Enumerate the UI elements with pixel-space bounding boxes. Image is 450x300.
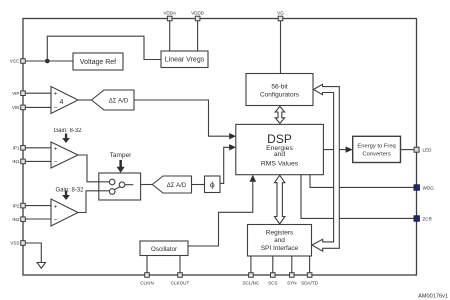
svg-text:Gain: 8-32: Gain: 8-32 (55, 187, 84, 193)
svg-text:Configurators: Configurators (260, 91, 300, 98)
svg-text:VDDD: VDDD (191, 10, 205, 15)
op-amp U1 gain 4 (51, 87, 78, 114)
wire DSP to energy-to-freq (323, 149, 347, 151)
wire VIP input (25, 92, 51, 94)
svg-text:VIN: VIN (12, 105, 20, 110)
svg-text:Voltage Ref: Voltage Ref (80, 59, 116, 66)
svg-text:and: and (274, 151, 286, 158)
wire VCC to Voltage Ref (25, 60, 73, 62)
svg-text:+: + (54, 204, 58, 211)
linear voltage regulators box (161, 51, 208, 68)
voltage reference box (73, 53, 123, 70)
registers and SPI interface box U6 (248, 225, 312, 257)
svg-text:VIP: VIP (12, 91, 19, 96)
arrow into DSP (voltage channel) (229, 133, 236, 139)
pin SDA/TD (307, 273, 312, 278)
wire oscillator to CLKIN pin (146, 256, 148, 273)
energy to frequency converters box (353, 136, 401, 162)
wire amp U2 output to tamper switch (78, 155, 99, 182)
wire VDDA down (169, 21, 171, 51)
arrow into DSP (current channel) (229, 144, 236, 150)
sigma-delta ADC1 (92, 90, 135, 110)
gain arrow U2 (65, 134, 67, 139)
pin ZCR (414, 216, 419, 221)
pin LED (414, 147, 419, 152)
op-amp U3 gain 8-32 (51, 199, 78, 226)
wire VCC junction to Linear Vregs (47, 36, 161, 61)
wire IP2 input (25, 205, 51, 207)
svg-text:VDDA: VDDA (163, 10, 177, 15)
svg-text:−: − (54, 105, 58, 112)
svg-text:CLKIN: CLKIN (140, 281, 154, 286)
svg-text:Gain: 8-32: Gain: 8-32 (53, 128, 82, 134)
svg-text:IP1: IP1 (13, 146, 20, 151)
wire oscillator clock to DSP (188, 180, 253, 246)
svg-text:VG: VG (277, 10, 284, 15)
svg-text:Tamper: Tamper (110, 152, 133, 159)
wire DSP to ZCR pin (301, 175, 414, 219)
wire IN2 input (25, 218, 51, 220)
wire SPI to SYN pin (291, 256, 293, 273)
svg-text:+: + (54, 91, 58, 98)
wire IP1 input (25, 147, 51, 149)
svg-text:4: 4 (60, 99, 64, 106)
pin VDDD (195, 16, 200, 21)
svg-text:Registers: Registers (266, 229, 294, 236)
svg-text:SCS: SCS (268, 281, 277, 286)
arrow into DSP (clock) (250, 175, 257, 182)
phase block phi (205, 176, 221, 193)
pin IP2 (21, 203, 26, 208)
pin IP1 (21, 146, 26, 151)
pin SCS (271, 273, 276, 278)
gain arrow U3 (65, 191, 67, 196)
tamper switch box (99, 173, 141, 200)
wire amp U3 output to tamper switch (78, 191, 99, 213)
svg-text:IN1: IN1 (12, 159, 20, 164)
double arrow configurators-DSP (275, 106, 284, 123)
svg-text:AM00176v1: AM00176v1 (418, 294, 448, 300)
pin CLKIN (145, 273, 150, 278)
svg-text:Oscillator: Oscillator (151, 246, 177, 253)
svg-text:IN2: IN2 (12, 217, 20, 222)
wire SPI to SCL/NC pin (250, 256, 252, 273)
pin VIP (21, 91, 26, 96)
svg-text:and: and (274, 237, 285, 244)
svg-text:ϕ: ϕ (210, 179, 215, 189)
svg-text:CLKOUT: CLKOUT (171, 281, 190, 286)
oscillator box (140, 241, 188, 256)
wire oscillator to CLKOUT pin (179, 256, 181, 273)
svg-text:VSS: VSS (10, 241, 19, 246)
wire amp U1 output to ADC1 (78, 99, 92, 101)
svg-text:SYN: SYN (287, 281, 296, 286)
svg-text:RMS Values: RMS Values (261, 160, 299, 167)
tamper arrow (119, 160, 122, 167)
node VCC junction (45, 59, 50, 64)
wire VDDD down (197, 21, 199, 51)
svg-text:LED: LED (423, 148, 433, 153)
svg-text:Converters: Converters (362, 152, 390, 158)
wire phi block to DSP (220, 147, 231, 183)
pin VCC (21, 16, 420, 277)
pin WDG (414, 185, 419, 190)
ground (37, 263, 45, 269)
svg-text:SPI Interface: SPI Interface (261, 245, 299, 252)
svg-text:IP2: IP2 (13, 203, 20, 208)
op-amp U2 gain 8-32 (51, 142, 78, 168)
svg-text:ΔΣ A/D: ΔΣ A/D (167, 183, 187, 189)
svg-text:Energy to Freq: Energy to Freq (357, 144, 395, 150)
svg-text:SDA/TD: SDA/TD (301, 281, 319, 286)
svg-text:−: − (54, 216, 58, 223)
svg-text:ZCR: ZCR (423, 216, 433, 221)
pin VDDA (167, 16, 172, 21)
svg-text:VCC: VCC (10, 59, 20, 64)
wire tamper switch to ADC2 (141, 184, 153, 186)
pin CLKOUT (178, 273, 183, 278)
pin SCL/NC (249, 273, 254, 278)
wire VIN input (25, 106, 51, 108)
pin IN2 (21, 217, 26, 222)
wire VSS to ground (25, 243, 41, 263)
svg-text:−: − (54, 159, 58, 166)
pin VG (278, 16, 283, 21)
sigma-delta ADC2 (152, 176, 191, 193)
wire ADC2 to phi block (192, 184, 205, 186)
svg-text:Linear Vregs: Linear Vregs (165, 57, 205, 64)
svg-text:WDG: WDG (423, 185, 435, 190)
wire energy-to-freq to LED pin (401, 149, 415, 151)
pin VSS (21, 241, 26, 246)
wire VG down (280, 21, 282, 74)
bus arrow 56-bit configurators to registers (hollow) (312, 84, 339, 251)
svg-text:+: + (54, 145, 58, 152)
pin IN1 (21, 159, 26, 164)
chip outline border (23, 19, 417, 276)
wire SPI to SDA/TD pin (309, 256, 311, 273)
wire SPI to SCS pin (272, 256, 274, 273)
double arrow DSP-registers (275, 175, 285, 224)
label VCC (10, 59, 20, 246)
wire DSP to WDG pin (310, 175, 414, 188)
svg-text:56-bit: 56-bit (271, 83, 287, 90)
pin VIN (21, 105, 26, 110)
wire ADC1 output to DSP (134, 100, 231, 136)
wire IN1 input (25, 160, 51, 162)
tamper switch contacts (99, 181, 110, 183)
svg-text:DSP: DSP (267, 132, 292, 146)
svg-text:ΔΣ A/D: ΔΣ A/D (109, 98, 129, 104)
arrow into energy-to-freq (346, 146, 353, 152)
svg-text:SCL/NC: SCL/NC (242, 281, 260, 286)
DSP box U5 (236, 124, 324, 174)
pin SYN (290, 273, 295, 278)
56-bit configurators box U4 (246, 74, 313, 106)
